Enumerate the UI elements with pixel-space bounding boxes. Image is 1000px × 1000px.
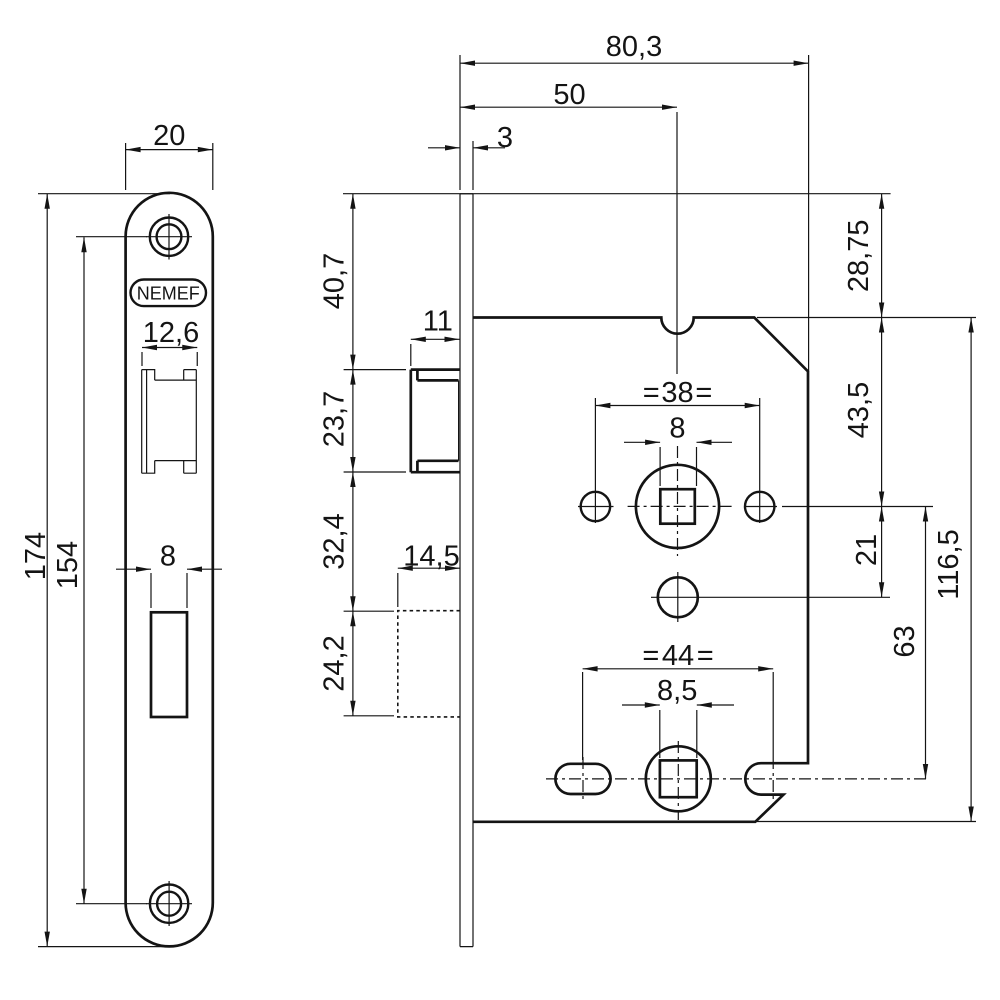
svg-text:8: 8 [669,412,685,444]
faceplate outline (stadium) [126,193,213,947]
svg-text:43,5: 43,5 [843,382,875,438]
NEMEF logo [131,280,207,307]
svg-text:3: 3 [497,122,513,154]
latch bolt side view [411,370,460,473]
svg-text:80,3: 80,3 [606,31,662,63]
svg-text:154: 154 [52,541,84,589]
dimension 63 [889,507,928,780]
svg-text:23,7: 23,7 [319,391,351,447]
oval hole [555,757,610,801]
dimension 14,5 (deadbolt throw) [398,540,460,607]
follower square dimension 8 [624,412,732,486]
dimension =44= (cylinder hole spacing) [583,640,774,806]
faceplate side strip [460,194,473,947]
dimension 20 (plate width) [126,120,213,190]
deadbolt slot front view [151,612,187,717]
svg-text:28,75: 28,75 [843,220,875,293]
svg-text:24,2: 24,2 [319,635,351,691]
dimension 23,7 [319,370,407,472]
svg-text:=: = [642,640,659,672]
dimension 32,4 [319,472,395,611]
dimension 174 (plate height) [20,194,170,947]
svg-text:44: 44 [662,640,694,672]
middle hole centerline extension [704,596,890,598]
dimension 40,7 [319,194,407,370]
svg-text:50: 50 [553,79,585,111]
lock case outline [473,318,808,822]
case top reference extension [757,317,976,319]
svg-text:=: = [695,377,712,409]
deadbolt thrown position (dashed) [398,611,460,717]
svg-text:8: 8 [160,541,176,573]
follower (handle) hole [628,446,732,556]
dimension 8,5 (cylinder square) [622,675,734,758]
dimension 50 (backset) [460,79,677,374]
dimension 21 [851,507,884,598]
case bottom reference extension [757,821,976,823]
svg-text:21: 21 [851,534,883,566]
svg-text:20: 20 [153,120,185,152]
latch bolt front view [142,370,197,474]
svg-text:40,7: 40,7 [319,253,351,309]
dimension 8 (deadbolt slot width) [116,541,222,609]
horizontal centerline through cylinder row [546,778,930,780]
dimension 154 (screw hole spacing) [52,237,147,904]
svg-text:32,4: 32,4 [319,513,351,569]
svg-text:38: 38 [661,377,693,409]
dimension =38= (handle hole spacing) [595,377,759,523]
left handle screw hole [578,492,614,521]
svg-text:8,5: 8,5 [657,675,697,707]
svg-text:63: 63 [889,625,921,657]
middle hole [651,572,704,622]
svg-text:NEMEF: NEMEF [137,283,200,304]
right handle screw hole [745,492,777,521]
top reference line [343,193,891,195]
dimension 12,6 (latch width) [142,317,199,366]
dimension 43,5 [843,318,884,507]
dimension 3 (faceplate thickness) [428,122,513,190]
dimension 11 (latch protrusion) [411,305,460,366]
top screw hole [146,214,192,260]
bottom screw hole [146,881,192,926]
dimension 28,75 [843,194,884,318]
dimension 80,3 (case depth) [460,31,809,371]
dimension 116,5 [933,318,974,822]
svg-text:12,6: 12,6 [143,317,199,349]
chain dimension line [352,194,354,716]
follower centerline extension [782,506,933,508]
svg-text:116,5: 116,5 [933,529,965,599]
svg-text:=: = [643,377,660,409]
dimension 24,2 [319,611,395,716]
cylinder hole with square [646,741,711,820]
svg-text:=: = [697,640,714,672]
svg-text:11: 11 [423,305,453,337]
